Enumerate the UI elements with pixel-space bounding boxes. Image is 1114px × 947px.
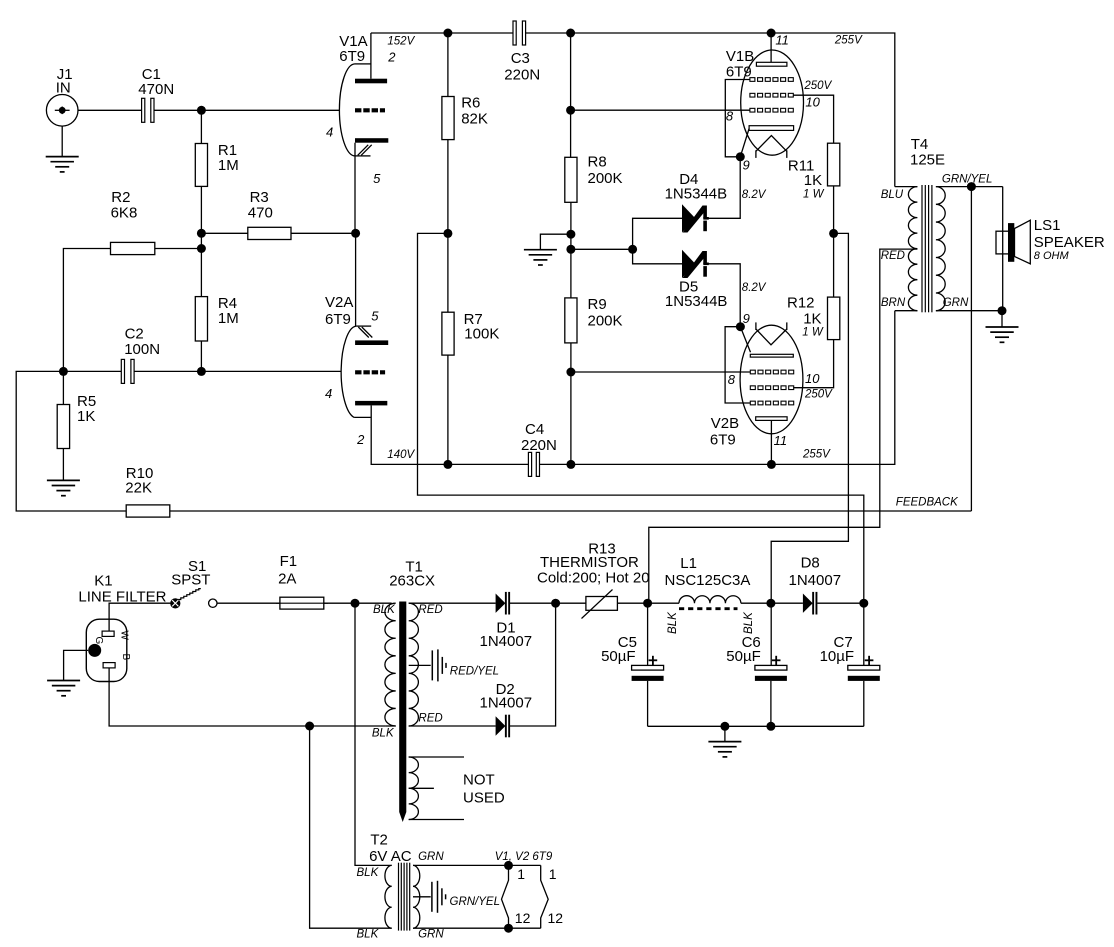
node R9 bottom: [566, 460, 575, 469]
pentode V2B cathode bar: [750, 354, 793, 357]
node D1/D2 junction: [551, 599, 560, 608]
pentode V1B plate bar: [756, 62, 787, 66]
label 250V V2B: [804, 388, 833, 400]
wire D2 to node: [510, 603, 556, 726]
svg-text:R9: R9: [588, 296, 607, 313]
wire T1 primary bottom: [385, 725, 395, 727]
wire F1 to T1: [324, 602, 392, 604]
svg-text:BRN: BRN: [881, 297, 906, 309]
node R2/R4: [197, 244, 206, 253]
transformer T1 primary coil: [385, 603, 396, 726]
node C1/R1/V1A grid: [197, 106, 206, 115]
capacitor C3 220N: [504, 21, 540, 83]
label BLK T2 top: [357, 867, 380, 879]
node speaker return: [998, 306, 1007, 315]
node R6/R7/B+ link: [443, 229, 452, 238]
svg-text:V1, V2 6T9: V1, V2 6T9: [495, 851, 553, 863]
triode V2A cathode slash: [358, 327, 372, 338]
pin label 10 V2B: [805, 371, 820, 386]
pentode V2B grid row3 (control): [750, 401, 793, 405]
svg-text:NSC125C3A: NSC125C3A: [665, 572, 751, 589]
ground at supply: [708, 726, 741, 757]
label T4: [910, 136, 945, 168]
label GRN/YEL T2: [450, 896, 501, 908]
ground at K1: [47, 650, 88, 695]
connector K1 pin W: [102, 631, 114, 636]
diode D8 1N4007: [789, 555, 842, 615]
label V1 V2 6T9: [495, 851, 553, 863]
ground at R5: [47, 480, 80, 495]
svg-text:IN: IN: [56, 79, 71, 96]
svg-text:22K: 22K: [125, 480, 152, 497]
svg-text:L1: L1: [680, 555, 697, 572]
svg-text:2A: 2A: [278, 571, 296, 588]
svg-text:BLK: BLK: [667, 611, 679, 634]
pin label 5 V1A: [373, 171, 381, 186]
pin label 10 V1B: [805, 95, 820, 110]
svg-text:G: G: [93, 637, 104, 645]
label BLU: [881, 189, 904, 201]
label NOT USED: [463, 771, 505, 806]
svg-text:263CX: 263CX: [389, 572, 435, 589]
wire S1 to F1: [217, 602, 280, 604]
resistor R2 6K8: [63, 189, 201, 372]
svg-text:250V: 250V: [804, 388, 833, 400]
pin label 1 heater2: [549, 866, 557, 882]
wire D8 to C7 node: [817, 602, 864, 604]
svg-text:K1: K1: [94, 573, 112, 590]
wire V2A plate to bottom rail: [371, 405, 528, 464]
wire D1 to node: [510, 602, 556, 604]
pin label 1 heater1: [517, 866, 525, 882]
node R8/R9/zeners: [566, 245, 575, 254]
node R8/ground: [566, 230, 575, 239]
wire bottom rail 255V: [539, 311, 894, 465]
pentode V1B cathode diagonal: [740, 129, 749, 157]
node GRN/YEL feedback tap: [967, 182, 976, 191]
wire feedback drop: [970, 187, 972, 511]
label GRN/YEL T4: [942, 174, 993, 186]
wire T1 secondary top to D1: [409, 602, 496, 604]
svg-text:10µF: 10µF: [820, 648, 855, 665]
pin label 11 V2B: [774, 433, 788, 448]
node C6/L1/D8: [766, 599, 775, 608]
triode V1A plate: [355, 79, 387, 84]
svg-text:140V: 140V: [387, 449, 415, 461]
label V1A: [339, 33, 367, 65]
wire T2 secondary bottom: [413, 927, 541, 929]
svg-text:220N: 220N: [504, 66, 540, 83]
pin label 12 heater1: [515, 910, 531, 926]
svg-text:6T9: 6T9: [325, 311, 351, 328]
label RED T1 top: [418, 604, 442, 616]
connector K1 line filter body: [86, 619, 127, 681]
svg-text:THERMISTOR: THERMISTOR: [540, 554, 639, 571]
svg-text:1K: 1K: [77, 408, 95, 425]
pentode V1B grid row1: [750, 78, 793, 82]
wire D4 cathode to V1B pin9: [709, 157, 741, 219]
svg-text:1 W: 1 W: [803, 188, 825, 200]
capacitor C6 50uF: [726, 634, 787, 727]
node V2B pin 9: [736, 322, 745, 331]
svg-text:Cold:200; Hot 20: Cold:200; Hot 20: [537, 570, 650, 587]
capacitor C7 10uF: [820, 634, 880, 727]
fuse F1 2A: [276, 553, 328, 609]
transformer T1 core: [399, 602, 406, 823]
node R3/V1A cathode: [351, 229, 360, 238]
pentode V2B envelope: [740, 325, 803, 434]
wire node to D8: [771, 602, 803, 604]
svg-text:4: 4: [326, 125, 333, 140]
wire C3 node down: [570, 33, 572, 157]
svg-text:5: 5: [373, 171, 381, 186]
ground at R8/R9: [524, 250, 557, 265]
pin label 2 V1A: [387, 50, 396, 65]
pentode V1B envelope: [741, 50, 804, 155]
node V1B plate: [767, 29, 776, 38]
speaker LS1: [996, 187, 1105, 311]
transformer T1 NOT USED winding: [409, 757, 464, 820]
node C7/D8: [859, 599, 868, 608]
svg-text:SPST: SPST: [171, 572, 210, 589]
pentode V1B plate lead: [770, 33, 772, 62]
svg-text:BLU: BLU: [881, 189, 904, 201]
pentode V2B plate bar: [756, 417, 787, 421]
svg-text:R12: R12: [787, 294, 815, 311]
label BLK T2 bottom: [357, 928, 380, 940]
wire T2 secondary top: [413, 864, 541, 866]
wire secondary top GRN/YEL: [936, 186, 1003, 188]
wire T1 secondary bottom to D2: [409, 725, 496, 727]
svg-text:GRN: GRN: [943, 297, 969, 309]
node R6 top: [443, 29, 452, 38]
triode V2A plate: [355, 401, 387, 406]
resistor R10 22K: [125, 465, 169, 517]
label FEEDBACK: [896, 497, 959, 509]
transformer T4 core: [922, 185, 932, 312]
pin label 9 V1B: [743, 157, 750, 172]
svg-text:5: 5: [371, 309, 379, 324]
label RED T4: [881, 250, 905, 262]
svg-text:50µF: 50µF: [726, 648, 761, 665]
zener D4 1N5344B: [665, 171, 728, 233]
svg-text:82K: 82K: [461, 111, 488, 128]
inductor L1 NSC125C3A: [665, 555, 751, 609]
triode V1A cathode: [355, 138, 388, 143]
resistor R4 1M: [195, 249, 238, 372]
svg-text:9: 9: [743, 311, 750, 326]
svg-text:BLK: BLK: [372, 728, 395, 740]
label BLK L1 right: [743, 611, 755, 634]
label T1: [389, 558, 435, 589]
svg-text:470N: 470N: [138, 81, 174, 98]
svg-text:GRN/YEL: GRN/YEL: [450, 896, 501, 908]
label RED/YEL: [450, 666, 499, 678]
thermistor R13: [537, 541, 650, 619]
wire to V1B grid: [571, 109, 750, 111]
pentode V1B bracket g-row1 to pin9: [725, 80, 750, 157]
pin label 8 V1B: [726, 109, 734, 124]
label BLK T1 bottom: [372, 728, 395, 740]
transformer T1 secondary coil: [409, 603, 419, 726]
label BRN: [881, 297, 906, 309]
svg-text:1N5344B: 1N5344B: [665, 185, 728, 202]
wire to ground R8: [540, 234, 571, 250]
svg-text:4: 4: [325, 386, 332, 401]
label BLK L1 left: [667, 611, 679, 634]
wire V1A plate to top rail: [370, 33, 372, 79]
svg-text:SPEAKER: SPEAKER: [1034, 234, 1105, 251]
svg-text:1K: 1K: [804, 172, 822, 189]
resistor R6 82K: [442, 33, 488, 233]
svg-text:1K: 1K: [803, 311, 821, 328]
capacitor C4 220N: [521, 421, 557, 477]
svg-text:W: W: [119, 631, 130, 641]
svg-text:152V: 152V: [387, 35, 415, 47]
svg-text:NOT: NOT: [463, 771, 495, 788]
label 250V V1B: [803, 80, 832, 92]
label BLK T1 top: [373, 604, 396, 616]
svg-text:200K: 200K: [588, 170, 623, 187]
pentode V1B grid row3 (control): [750, 108, 793, 112]
svg-text:2: 2: [387, 50, 396, 65]
node C3/R8/V1B-g1: [566, 29, 575, 38]
svg-text:F1: F1: [280, 553, 298, 570]
wire L1 to C6 node: [741, 602, 771, 604]
diode D2 1N4007: [480, 681, 533, 737]
svg-text:12: 12: [515, 910, 531, 926]
svg-text:D8: D8: [801, 555, 820, 572]
pentode V2B bracket g-row3 to pin9: [725, 327, 750, 403]
triode V2A envelope arc: [341, 326, 371, 417]
node V2B plate: [767, 460, 776, 469]
svg-text:B: B: [120, 654, 131, 661]
resistor R3 470: [201, 189, 355, 240]
svg-text:BLK: BLK: [357, 928, 380, 940]
pin label 12 heater2: [548, 910, 564, 926]
transformer T4 primary coil: [908, 187, 917, 311]
wire secondary bottom GRN: [936, 310, 1003, 312]
pin label 4 V2A: [325, 386, 332, 401]
wire to T2 primary: [355, 603, 392, 865]
wire node to L1: [648, 602, 679, 604]
pin label 2 V2A: [356, 432, 365, 447]
svg-text:LS1: LS1: [1034, 217, 1061, 234]
label GRN T2 bottom: [418, 928, 444, 940]
connector J1 (input jack): [46, 66, 78, 126]
svg-text:RED: RED: [418, 604, 442, 616]
svg-text:1M: 1M: [218, 157, 239, 174]
svg-text:C3: C3: [511, 50, 530, 67]
label 255V top: [834, 35, 863, 47]
svg-text:255V: 255V: [802, 449, 831, 461]
svg-text:255V: 255V: [834, 35, 863, 47]
svg-text:C4: C4: [525, 421, 544, 438]
pin label 9 V2B: [743, 311, 750, 326]
transformer T2 center tap chassis: [413, 881, 446, 913]
svg-text:BLK: BLK: [743, 611, 755, 634]
wire top rail 255V: [526, 33, 895, 187]
transformer T2 core: [399, 863, 410, 931]
wire BLU lead: [895, 186, 918, 188]
pentode V1B grid row2 (screen): [750, 93, 793, 97]
heater load V2: [541, 865, 549, 928]
ground at J1: [46, 126, 79, 172]
transformer T4 secondary coil: [936, 187, 945, 311]
pentode V2B cathode chevron: [756, 322, 787, 344]
triode V1A cathode slash: [358, 145, 372, 156]
wire capacitor ground rail: [648, 725, 864, 727]
svg-text:GRN/YEL: GRN/YEL: [942, 174, 993, 186]
wire BRN lead: [895, 310, 918, 312]
wire screens to supply: [771, 233, 848, 665]
node V1B g1 feed: [566, 106, 575, 115]
zener D5 1N5344B: [665, 250, 728, 310]
svg-text:1N4007: 1N4007: [480, 695, 533, 712]
label K1 pin letters: [93, 631, 131, 661]
node R9/V2B grid: [566, 368, 575, 377]
svg-text:RED: RED: [418, 712, 442, 724]
wire zener feed: [571, 248, 633, 250]
label V2A: [325, 294, 353, 328]
diode D1 1N4007: [480, 592, 533, 650]
svg-text:6T9: 6T9: [726, 63, 752, 80]
node K1 neutral/T2: [305, 722, 314, 731]
node C5/L1/B+ raw: [643, 599, 652, 608]
capacitor C1 470N: [138, 66, 174, 123]
wire V1A cathode down: [354, 143, 357, 326]
svg-text:6T9: 6T9: [339, 48, 365, 65]
svg-text:6K8: 6K8: [111, 204, 138, 221]
svg-text:GRN: GRN: [418, 928, 444, 940]
wire D5 anode: [633, 249, 682, 263]
svg-text:12: 12: [548, 910, 564, 926]
connector K1 pin G: [88, 644, 101, 657]
svg-text:8 OHM: 8 OHM: [1034, 250, 1070, 262]
wire C2 to V2A grid: [201, 370, 341, 372]
svg-text:9: 9: [743, 157, 750, 172]
capacitor C2 100N: [63, 326, 201, 384]
svg-text:8: 8: [728, 372, 736, 387]
label 8.2V D5: [742, 282, 767, 294]
label V1B: [726, 48, 754, 80]
svg-text:220N: 220N: [521, 437, 557, 454]
node ground tap: [720, 722, 729, 731]
svg-text:1N5344B: 1N5344B: [665, 293, 728, 310]
svg-text:1N4007: 1N4007: [789, 572, 842, 589]
wire V1B screen to R11: [793, 95, 833, 143]
svg-text:10: 10: [805, 95, 820, 110]
wire C1 to V1A grid: [154, 109, 340, 111]
transformer T2 secondary coil: [413, 865, 420, 928]
label K1: [78, 573, 166, 606]
pentode V1B cathode bar: [749, 126, 794, 131]
svg-text:R8: R8: [588, 153, 607, 170]
svg-text:1M: 1M: [218, 310, 239, 327]
triode V1A envelope arc: [339, 64, 370, 156]
svg-text:1: 1: [549, 866, 557, 882]
pentode V1B cathode chevron: [756, 136, 787, 158]
heater load V1: [502, 865, 509, 928]
node heater V1: [504, 861, 513, 870]
node R1/R3: [197, 229, 206, 238]
connector K1 pin B: [103, 663, 115, 668]
wire RED lead (B+): [649, 249, 918, 603]
triode V2A cathode: [355, 340, 388, 345]
wire K1 hot to S1: [109, 603, 171, 631]
triode V2A grid: [355, 370, 385, 374]
svg-text:R6: R6: [461, 94, 480, 111]
resistor R7 100K: [442, 233, 499, 464]
svg-text:RED: RED: [881, 250, 905, 262]
pentode V2B grid row1: [750, 370, 793, 374]
label 140V: [387, 449, 415, 461]
wire feedback left loop: [16, 371, 126, 511]
transformer T2 primary coil: [385, 865, 392, 928]
node heater V1 bottom: [504, 924, 513, 933]
svg-text:1N4007: 1N4007: [480, 633, 533, 650]
svg-text:T2: T2: [370, 832, 388, 849]
label V2B: [710, 415, 739, 449]
svg-text:6V AC: 6V AC: [369, 848, 412, 865]
label T2: [369, 832, 412, 865]
node R11/R12: [829, 229, 838, 238]
pentode V2B plate lead: [770, 420, 772, 464]
svg-text:BLK: BLK: [357, 867, 380, 879]
svg-text:8.2V: 8.2V: [742, 189, 767, 201]
label RED T1 bottom: [418, 712, 442, 724]
resistor R8 200K: [565, 153, 623, 298]
label GRN T2 top: [418, 851, 444, 863]
wire FEEDBACK line: [170, 510, 972, 512]
svg-text:50µF: 50µF: [601, 648, 636, 665]
svg-text:FEEDBACK: FEEDBACK: [896, 497, 959, 509]
transformer T1 center tap chassis: [409, 649, 446, 681]
svg-text:BLK: BLK: [373, 604, 396, 616]
resistor R5 1K: [57, 371, 96, 480]
svg-text:11: 11: [775, 33, 789, 48]
pentode V2B grid row2 (screen): [750, 386, 793, 390]
switch S1 SPST: [170, 558, 217, 609]
resistor R11 1K 1W: [788, 143, 840, 297]
wire D4 anode: [633, 218, 682, 249]
svg-text:6T9: 6T9: [710, 431, 736, 448]
svg-text:8.2V: 8.2V: [742, 282, 767, 294]
svg-text:100N: 100N: [124, 341, 160, 358]
pentode V2B cathode diagonal: [740, 327, 750, 353]
node R7 bottom: [443, 460, 452, 469]
node S1/T2 feed: [351, 599, 360, 608]
node D4/D5 anodes: [628, 245, 637, 254]
svg-text:V2B: V2B: [711, 415, 739, 432]
svg-text:100K: 100K: [464, 326, 499, 343]
svg-text:10: 10: [805, 371, 820, 386]
label 8.2V D4: [742, 189, 767, 201]
svg-text:USED: USED: [463, 790, 505, 807]
svg-text:470: 470: [248, 204, 273, 221]
pin label 8 V2B: [728, 372, 736, 387]
wire R13 to C5 node: [617, 602, 647, 604]
node C6 ground: [766, 722, 775, 731]
pin label 11 V1B: [775, 33, 789, 48]
label GRN T4: [943, 297, 969, 309]
capacitor C5 50uF: [601, 603, 664, 726]
node C2/R4/V2A grid: [197, 367, 206, 376]
node V1B pin 9: [736, 152, 745, 161]
svg-text:250V: 250V: [803, 80, 832, 92]
svg-text:125E: 125E: [910, 151, 945, 168]
svg-text:1 W: 1 W: [802, 327, 824, 339]
